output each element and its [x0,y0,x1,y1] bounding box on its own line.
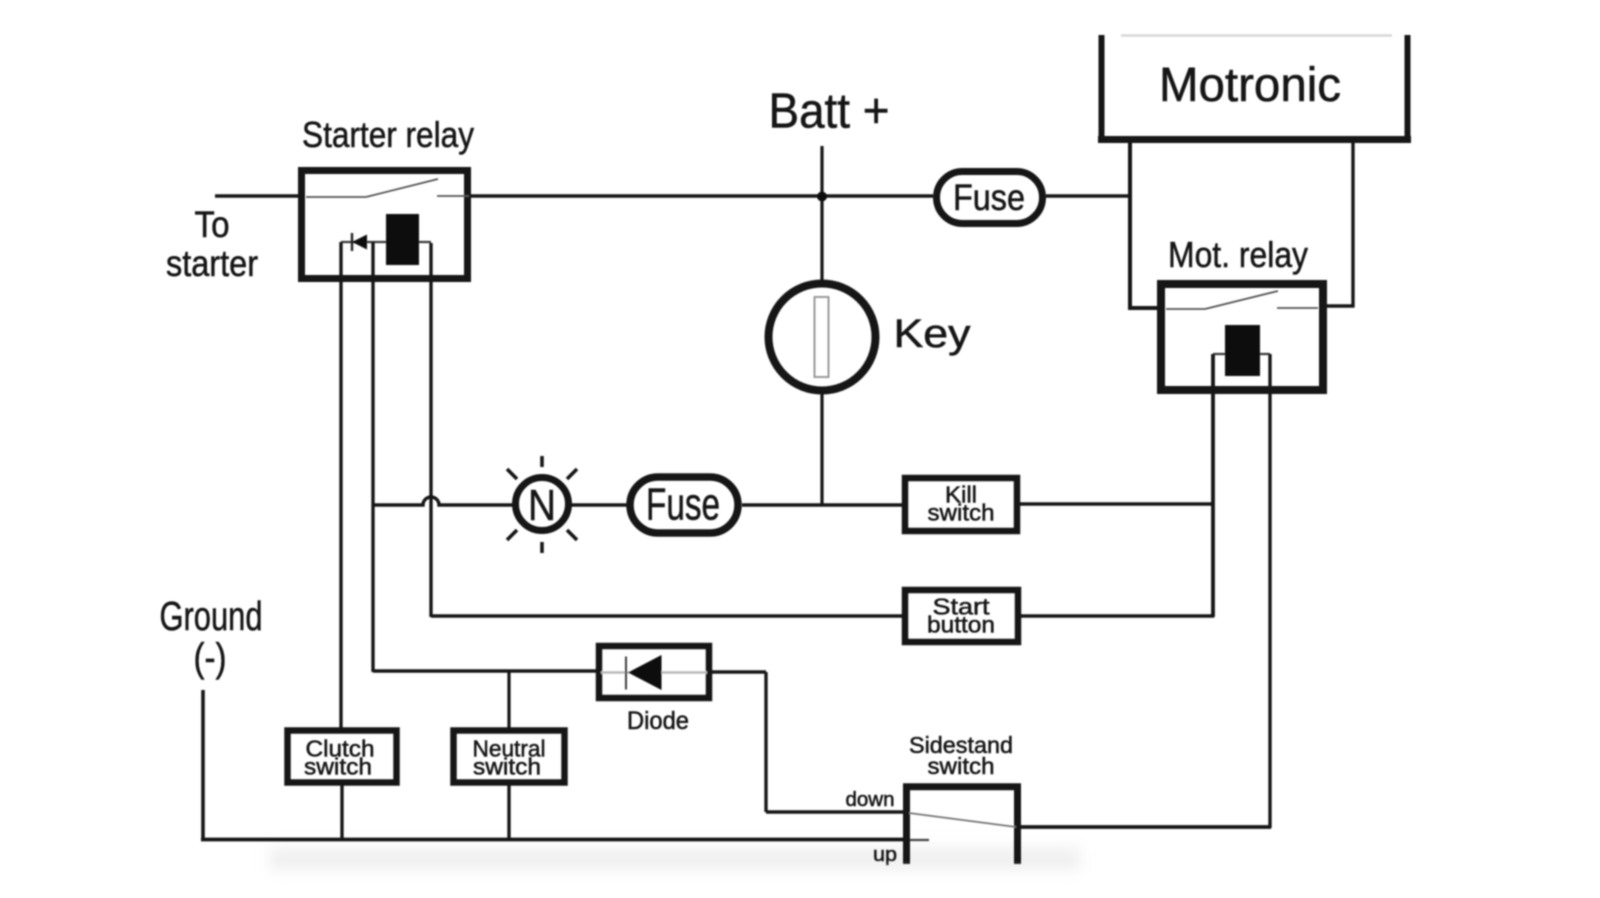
svg-text:Diode: Diode [627,707,689,735]
svg-text:starter: starter [166,243,258,284]
svg-text:Fuse: Fuse [646,479,720,530]
svg-text:switch: switch [304,754,372,780]
svg-text:switch: switch [928,500,995,526]
svg-text:switch: switch [928,753,995,779]
svg-text:Mot. relay: Mot. relay [1168,234,1308,275]
svg-text:(-): (-) [194,636,227,680]
svg-text:N: N [528,481,556,530]
svg-text:Starter relay: Starter relay [302,114,474,155]
svg-text:down: down [846,789,895,811]
svg-text:Ground: Ground [160,593,263,639]
svg-text:Key: Key [894,312,971,356]
svg-text:switch: switch [473,754,541,780]
svg-text:Motronic: Motronic [1159,59,1341,112]
svg-text:Batt +: Batt + [769,85,890,139]
svg-text:To: To [195,204,230,245]
svg-text:Fuse: Fuse [953,177,1025,218]
svg-text:button: button [927,612,995,638]
